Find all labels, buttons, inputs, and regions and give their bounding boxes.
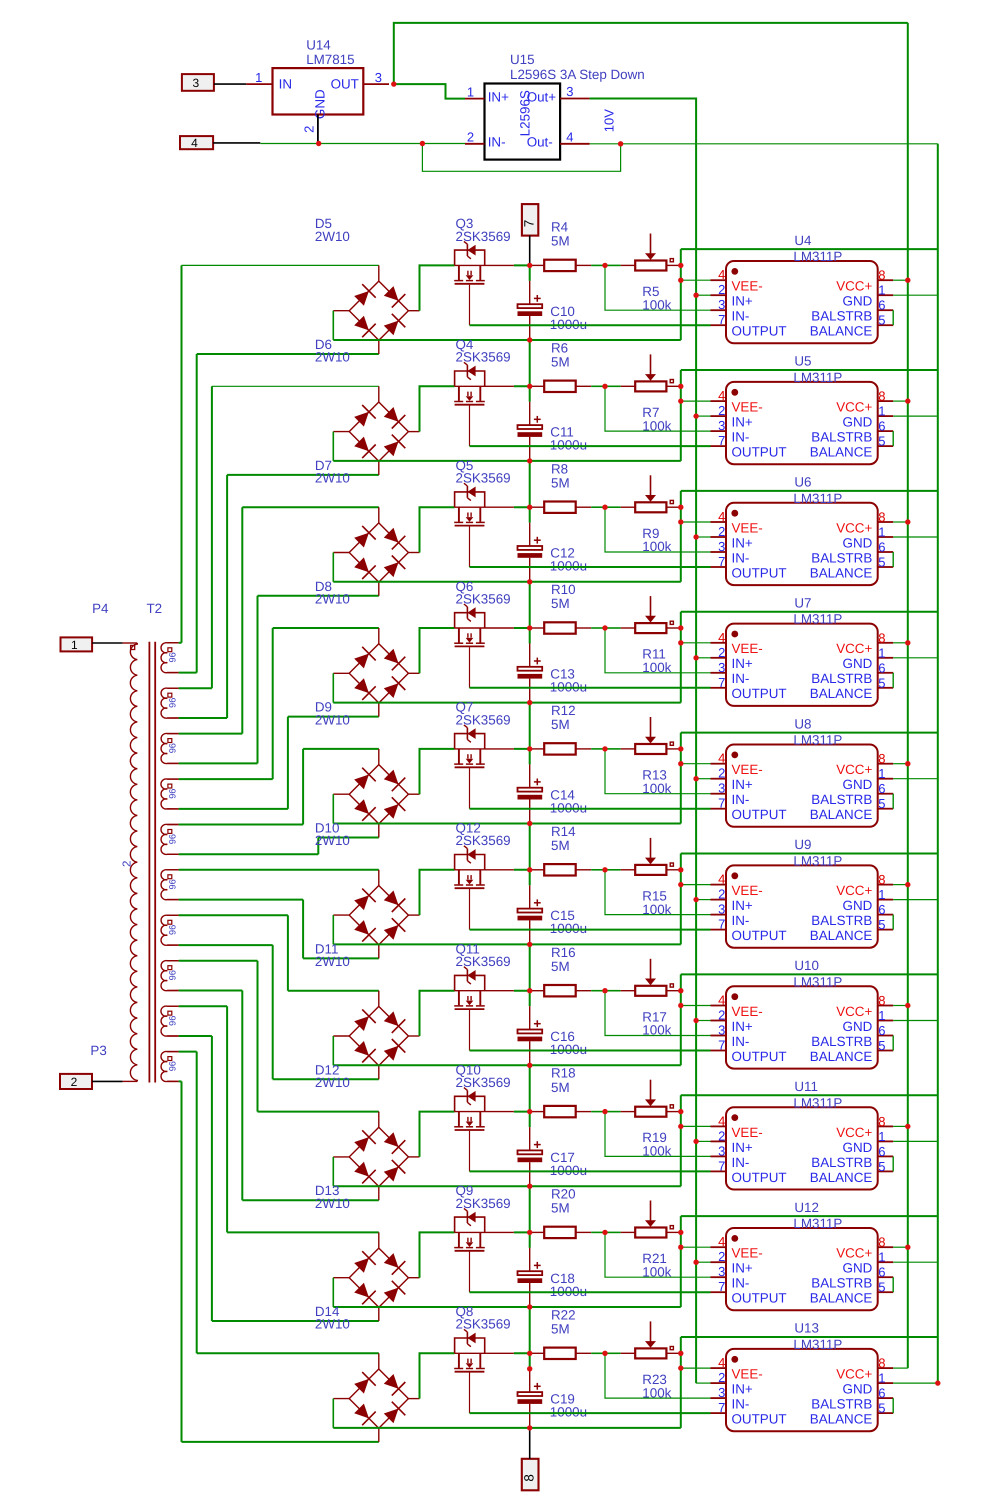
- wire ch2 VEE tie: [680, 370, 682, 461]
- svg-text:2SK3569: 2SK3569: [456, 833, 511, 848]
- U12 pin stubs: [711, 1246, 727, 1248]
- wire U5 balance strobe loop: [892, 431, 894, 446]
- comparator U4 LM311P: [711, 233, 894, 343]
- svg-text:7: 7: [718, 554, 725, 569]
- potentiometer R11 100k: [605, 596, 679, 675]
- R9 wiper arrow: [650, 475, 652, 496]
- svg-text:OUTPUT: OUTPUT: [732, 445, 787, 460]
- svg-text:IN+: IN+: [488, 90, 509, 105]
- wire ch3 negative rail: [333, 553, 681, 582]
- svg-text:1: 1: [878, 1008, 885, 1023]
- svg-text:2: 2: [718, 524, 725, 539]
- wire ch1 AC input A (T2 sec1 top to D5): [179, 265, 379, 642]
- svg-text:1: 1: [878, 404, 885, 419]
- node ch10 divider junction: [602, 1351, 607, 1356]
- node U9 VCC junction: [905, 882, 910, 887]
- wire ch6 OUTPUT to gate: [470, 929, 711, 931]
- svg-text:IN+: IN+: [732, 656, 753, 671]
- node ch6 divider junction: [602, 867, 607, 872]
- svg-text:R6: R6: [551, 340, 568, 355]
- svg-text:5: 5: [878, 675, 885, 690]
- wire ch3 VEE: [681, 521, 711, 523]
- svg-text:2W10: 2W10: [315, 591, 350, 606]
- svg-text:7: 7: [718, 1279, 725, 1294]
- R5 wiper arrow: [650, 234, 652, 255]
- svg-text:1: 1: [878, 645, 885, 660]
- potentiometer R15 100k: [605, 838, 679, 917]
- svg-text:2SK3569: 2SK3569: [456, 229, 511, 244]
- node ch7 pot right junction: [678, 988, 683, 993]
- resistor R20 5M: [544, 1187, 605, 1239]
- svg-text:OUTPUT: OUTPUT: [732, 807, 787, 822]
- svg-text:2: 2: [718, 766, 725, 781]
- svg-text:8: 8: [878, 872, 885, 887]
- svg-text:6: 6: [878, 1386, 885, 1401]
- svg-text:VCC+: VCC+: [836, 1125, 872, 1140]
- svg-text:P4: P4: [92, 601, 109, 616]
- svg-text:2: 2: [122, 861, 134, 867]
- svg-text:OUTPUT: OUTPUT: [732, 565, 787, 580]
- comparator U10 LM311P: [711, 958, 894, 1069]
- wire ch4 AC input A (T2 sec4 top to D8): [179, 628, 379, 779]
- capacitor C11 1000u: [518, 386, 588, 461]
- wire ch5 negative rail: [333, 794, 681, 823]
- T2 secondary 6 top lead stub: [167, 869, 178, 871]
- wire port4 / GND net: [213, 142, 465, 145]
- node ch10 GND bus end: [935, 1380, 940, 1385]
- node ch7 VEE junction: [678, 1003, 683, 1008]
- node ch5 rail chain junction: [527, 746, 532, 751]
- wire U15 Out+ 10V bus: [590, 99, 697, 1384]
- wire ch9 VEE: [681, 1246, 711, 1248]
- wire ch4 positive rail: [420, 628, 545, 673]
- svg-text:U13: U13: [794, 1321, 819, 1336]
- T2 secondary 2 top lead stub: [167, 687, 178, 689]
- svg-text:VCC+: VCC+: [836, 1246, 872, 1261]
- svg-text:GND: GND: [843, 294, 873, 309]
- capacitor C19 1000u: [518, 1353, 588, 1428]
- bridge rectifier D13 2W10: [315, 1183, 420, 1321]
- svg-text:GND: GND: [843, 777, 873, 792]
- svg-text:8: 8: [878, 268, 885, 283]
- node ch4 chain junction: [527, 700, 532, 705]
- svg-text:L2596S 3A Step Down: L2596S 3A Step Down: [510, 67, 645, 82]
- svg-text:U14: U14: [306, 38, 331, 53]
- wire ch4 OUTPUT to gate: [470, 687, 711, 689]
- transformer T2 secondary winding 10: [161, 1051, 179, 1081]
- C14 plus mark: [534, 781, 541, 783]
- wire ch7 VEE: [681, 1005, 711, 1007]
- svg-text:7: 7: [718, 312, 725, 327]
- wire ch8 IN+ from 10V bus: [696, 1140, 710, 1142]
- T2 secondary 10 bottom lead stub: [167, 1080, 178, 1082]
- wire chain ch9 to ch10: [529, 1307, 531, 1353]
- resistor R12 5M: [544, 703, 605, 755]
- svg-text:2: 2: [718, 1128, 725, 1143]
- svg-text:3: 3: [193, 76, 200, 90]
- svg-text:U12: U12: [794, 1200, 819, 1215]
- node ch6 VEE junction: [678, 882, 683, 887]
- svg-text:BALANCE: BALANCE: [810, 686, 873, 701]
- node ch9 rail chain junction: [527, 1230, 532, 1235]
- svg-text:3: 3: [718, 1385, 725, 1400]
- wire ch3 AC input B (T2 sec3 bottom to D7): [179, 596, 379, 764]
- svg-text:4: 4: [718, 630, 725, 645]
- wire ch9 AC input A (T2 sec9 top to D13): [179, 1006, 379, 1232]
- wire 15V bus vertical: [907, 23, 909, 1368]
- svg-text:VEE-: VEE-: [732, 520, 763, 535]
- svg-text:96: 96: [167, 743, 177, 753]
- svg-text:96: 96: [167, 925, 177, 935]
- svg-text:96: 96: [167, 1061, 177, 1071]
- svg-text:BALANCE: BALANCE: [810, 1049, 873, 1064]
- Q9 gate pin: [469, 1252, 471, 1293]
- T2 secondary 4 top lead stub: [167, 778, 178, 780]
- U5 pin stubs: [711, 400, 727, 402]
- wire U12 balance strobe loop: [892, 1277, 894, 1292]
- svg-text:IN-: IN-: [732, 792, 750, 807]
- Q11 gate pin: [469, 1010, 471, 1051]
- wire ch2 IN- sense: [605, 386, 711, 431]
- svg-text:8: 8: [522, 1474, 537, 1481]
- svg-text:BALSTRB: BALSTRB: [811, 430, 872, 445]
- wire ch7 reference to GND bus: [681, 973, 938, 975]
- transformer T2 secondary winding 8: [161, 961, 179, 991]
- node ch7 divider junction: [602, 988, 607, 993]
- svg-text:GND: GND: [843, 656, 873, 671]
- svg-text:IN-: IN-: [732, 550, 750, 565]
- svg-text:3: 3: [718, 902, 725, 917]
- svg-text:IN+: IN+: [732, 1261, 753, 1276]
- Q10 gate pin: [469, 1131, 471, 1172]
- wire ch3 OUTPUT to gate: [470, 566, 711, 568]
- D13 pin stubs: [378, 1232, 380, 1248]
- wire U9 VCC+ to 15V bus: [893, 884, 908, 886]
- svg-text:IN-: IN-: [732, 671, 750, 686]
- svg-text:R22: R22: [551, 1307, 576, 1322]
- svg-text:BALANCE: BALANCE: [810, 807, 873, 822]
- wire port7 to chain top: [529, 236, 531, 266]
- svg-text:1: 1: [878, 1129, 885, 1144]
- wire ch10 AC input A (T2 sec10 top to D14): [179, 1052, 379, 1354]
- svg-text:LM311P: LM311P: [793, 733, 842, 748]
- svg-text:4: 4: [718, 1234, 725, 1249]
- wire port1 to T2 primary: [92, 642, 137, 644]
- svg-text:4: 4: [566, 130, 573, 145]
- R23 wiper arrow: [650, 1321, 652, 1342]
- svg-text:5: 5: [878, 1159, 885, 1174]
- wire U8 balance strobe loop: [892, 794, 894, 809]
- svg-text:BALSTRB: BALSTRB: [811, 1155, 872, 1170]
- wire ch10 reference to GND bus: [681, 1336, 938, 1338]
- node ch8 rail chain junction: [527, 1109, 532, 1114]
- wire ch6 AC input A (T2 sec6 top to D10): [179, 869, 379, 871]
- R17 wiper arrow: [650, 959, 652, 980]
- Q4 gate pin: [469, 406, 471, 447]
- wire U4 VCC+ to 15V bus: [893, 279, 908, 281]
- wire ch4 negative rail: [333, 673, 681, 702]
- svg-text:GND: GND: [843, 1382, 873, 1397]
- svg-text:5: 5: [878, 1038, 885, 1053]
- potentiometer R19 100k: [605, 1080, 679, 1159]
- comparator U11 LM311P: [711, 1079, 894, 1190]
- bridge rectifier D7 2W10: [315, 458, 420, 596]
- svg-text:2SK3569: 2SK3569: [456, 350, 511, 365]
- wire ch5 VEE tie: [680, 733, 682, 824]
- svg-text:3: 3: [718, 1264, 725, 1279]
- C12 plus mark: [534, 539, 541, 541]
- svg-text:6: 6: [878, 540, 885, 555]
- R15 wiper arrow: [650, 838, 652, 859]
- D6 pin stubs: [378, 386, 380, 402]
- T2 secondary 4 bottom lead stub: [167, 808, 178, 810]
- D11 pin stubs: [378, 991, 380, 1007]
- transformer T2 secondary winding 2: [161, 688, 179, 718]
- wire U10 balance strobe loop: [892, 1036, 894, 1051]
- node ch9 pot right junction: [678, 1230, 683, 1235]
- svg-text:7: 7: [522, 220, 537, 227]
- node ch2 VEE junction: [678, 398, 683, 403]
- wire ch1 positive rail: [420, 265, 545, 310]
- node ch2 chain junction: [527, 458, 532, 463]
- node ch10 VEE junction: [678, 1365, 683, 1370]
- T2 secondary 1 bottom lead stub: [167, 672, 178, 674]
- wire ch10 OUTPUT to gate: [470, 1412, 711, 1414]
- node ch9 chain junction: [527, 1304, 532, 1309]
- node U10 VCC junction: [905, 1003, 910, 1008]
- port 7: [522, 204, 539, 236]
- bridge rectifier D11 2W10: [315, 942, 420, 1080]
- wire ch8 negative rail: [333, 1157, 681, 1186]
- svg-text:8: 8: [878, 1356, 885, 1371]
- wire ch8 VEE tie: [680, 1095, 682, 1186]
- wire ch3 IN- sense: [605, 507, 711, 552]
- bridge rectifier D10 2W10: [315, 821, 420, 959]
- node ch1 rail chain junction: [527, 263, 532, 268]
- wire U9 balance strobe loop: [892, 915, 894, 930]
- node ch2 divider junction: [602, 384, 607, 389]
- Q8 gate pin: [469, 1373, 471, 1414]
- R11 wiper arrow: [650, 596, 652, 617]
- svg-text:5M: 5M: [551, 596, 570, 611]
- svg-text:2: 2: [718, 1249, 725, 1264]
- wire ch1 IN- sense: [605, 265, 711, 310]
- T2 secondary 3 top lead stub: [167, 733, 178, 735]
- svg-text:7: 7: [718, 796, 725, 811]
- U9 pin stubs: [711, 884, 727, 886]
- C13 plus mark: [534, 660, 541, 662]
- bridge rectifier D8 2W10: [315, 579, 420, 717]
- node ch3 VEE junction: [678, 519, 683, 524]
- svg-text:P3: P3: [90, 1043, 106, 1058]
- Q5 gate pin: [469, 526, 471, 567]
- T2 secondary 7 bottom lead stub: [167, 944, 178, 946]
- wire U8 GND to bus: [893, 778, 938, 780]
- svg-text:BALSTRB: BALSTRB: [811, 1034, 872, 1049]
- comparator U9 LM311P: [711, 837, 894, 948]
- svg-text:VEE-: VEE-: [732, 762, 763, 777]
- svg-text:5: 5: [878, 1280, 885, 1295]
- wire U8 VCC+ to 15V bus: [893, 763, 908, 765]
- svg-text:GND: GND: [843, 1140, 873, 1155]
- bridge rectifier D14 2W10: [315, 1304, 420, 1442]
- D12 pin stubs: [378, 1112, 380, 1128]
- capacitor C18 1000u: [518, 1232, 588, 1307]
- U10 pin stubs: [711, 1005, 727, 1007]
- svg-text:IN+: IN+: [732, 294, 753, 309]
- svg-text:1: 1: [878, 525, 885, 540]
- bridge rectifier D6 2W10: [315, 337, 420, 475]
- svg-text:2SK3569: 2SK3569: [456, 1317, 511, 1332]
- svg-text:OUTPUT: OUTPUT: [732, 686, 787, 701]
- svg-text:R8: R8: [551, 461, 568, 476]
- svg-text:2SK3569: 2SK3569: [456, 591, 511, 606]
- node GND loop left: [420, 141, 425, 146]
- transformer T2 secondary winding 4: [161, 779, 179, 809]
- node ch10 cap top extra junction: [527, 1366, 532, 1371]
- wire ch8 VEE: [681, 1125, 711, 1127]
- wire chain ch3 to ch4: [529, 582, 531, 628]
- svg-text:2SK3569: 2SK3569: [456, 1196, 511, 1211]
- svg-text:IN+: IN+: [732, 1140, 753, 1155]
- wire GND loop under U15: [422, 144, 620, 172]
- svg-text:VCC+: VCC+: [836, 400, 872, 415]
- wire U5 VCC+ to 15V bus: [893, 400, 908, 402]
- C15 plus mark: [534, 902, 541, 904]
- svg-text:96: 96: [167, 970, 177, 980]
- wire ch4 IN- sense: [605, 628, 711, 673]
- svg-text:5M: 5M: [551, 1322, 570, 1337]
- svg-text:2: 2: [718, 1370, 725, 1385]
- svg-text:R4: R4: [551, 220, 569, 235]
- wire ch10 VEE: [681, 1367, 711, 1369]
- svg-text:2SK3569: 2SK3569: [456, 471, 511, 486]
- wire ch8 OUTPUT to gate: [470, 1170, 711, 1172]
- svg-text:4: 4: [718, 1113, 725, 1128]
- svg-text:8: 8: [878, 510, 885, 525]
- wire chain ch6 to ch7: [529, 944, 531, 990]
- wire ch1 AC input B (T2 sec1 bottom to D5): [179, 354, 379, 673]
- svg-text:2: 2: [718, 645, 725, 660]
- wire ch9 AC input B (T2 sec9 bottom to D13): [179, 1036, 379, 1321]
- svg-text:4: 4: [718, 993, 725, 1008]
- svg-text:VCC+: VCC+: [836, 520, 872, 535]
- Q7 gate pin: [469, 768, 471, 809]
- node ch4 pot right junction: [678, 625, 683, 630]
- wire ch9 IN+ from 10V bus: [696, 1261, 710, 1263]
- svg-text:96: 96: [167, 652, 177, 662]
- svg-text:8: 8: [878, 389, 885, 404]
- svg-text:BALANCE: BALANCE: [810, 1412, 873, 1427]
- wire ch5 VEE: [681, 763, 711, 765]
- svg-text:96: 96: [167, 834, 177, 844]
- wire chain ch1 to ch2: [529, 340, 531, 386]
- capacitor C14 1000u: [518, 749, 588, 824]
- wire chain ch7 to ch8: [529, 1065, 531, 1111]
- node ch4 divider junction: [602, 625, 607, 630]
- wire U7 VCC+ to 15V bus: [893, 642, 908, 644]
- wire U11 balance strobe loop: [892, 1156, 894, 1171]
- MOSFET Q9 2SK3569: [454, 1183, 514, 1292]
- port 2: [60, 1074, 92, 1089]
- wire chain ch5 to ch6: [529, 824, 531, 870]
- node ch1 VEE junction: [678, 278, 683, 283]
- svg-text:7: 7: [718, 433, 725, 448]
- svg-text:5M: 5M: [551, 1201, 570, 1216]
- svg-text:IN-: IN-: [732, 913, 750, 928]
- svg-text:T2: T2: [147, 601, 163, 616]
- T2 secondary 10 top lead stub: [167, 1051, 178, 1053]
- node U14 OUT junction: [391, 81, 396, 86]
- wire ch8 AC input A (T2 sec8 top to D12): [179, 961, 379, 1112]
- svg-text:5: 5: [878, 434, 885, 449]
- node ch9 VEE junction: [678, 1245, 683, 1250]
- U6 pin stubs: [711, 521, 727, 523]
- node ch2 IN+ junction: [693, 413, 698, 418]
- wire 15V rail to right top: [394, 23, 908, 84]
- wire ch5 IN- sense: [605, 749, 711, 794]
- node ch8 pot right junction: [678, 1109, 683, 1114]
- svg-text:BALSTRB: BALSTRB: [811, 913, 872, 928]
- svg-text:2: 2: [467, 130, 474, 145]
- port 4: [180, 136, 213, 150]
- svg-text:2SK3569: 2SK3569: [456, 1075, 511, 1090]
- wire GND bus vertical: [937, 144, 939, 1383]
- svg-text:R20: R20: [551, 1187, 576, 1202]
- node U12 VCC junction: [905, 1245, 910, 1250]
- wire ch5 AC input B (T2 sec5 bottom to D9): [179, 838, 379, 855]
- wire ch5 OUTPUT to gate: [470, 808, 711, 810]
- capacitor C10 1000u: [518, 265, 588, 340]
- buck converter U15 L2596S: [465, 52, 645, 159]
- D7 pin stubs: [378, 507, 380, 523]
- R21 wiper arrow: [650, 1201, 652, 1222]
- svg-text:1: 1: [467, 85, 474, 100]
- svg-text:VCC+: VCC+: [836, 279, 872, 294]
- wire ch2 IN+ from 10V bus: [696, 415, 710, 417]
- resistor R16 5M: [544, 945, 605, 997]
- node U6 VCC junction: [905, 519, 910, 524]
- MOSFET Q8 2SK3569: [454, 1304, 514, 1413]
- node ch5 VEE junction: [678, 761, 683, 766]
- svg-text:OUT: OUT: [331, 77, 359, 92]
- node ch3 divider junction: [602, 505, 607, 510]
- U14 pin 3 stub: [363, 83, 389, 85]
- wire U6 balance strobe loop: [892, 552, 894, 567]
- svg-text:7: 7: [718, 675, 725, 690]
- node ch5 pot right junction: [678, 746, 683, 751]
- R19 wiper arrow: [650, 1080, 652, 1101]
- svg-text:5M: 5M: [551, 234, 570, 249]
- wire ch6 negative rail: [333, 915, 681, 944]
- svg-text:BALANCE: BALANCE: [810, 565, 873, 580]
- comparator U6 LM311P: [711, 475, 894, 585]
- svg-text:OUTPUT: OUTPUT: [732, 324, 787, 339]
- svg-text:96: 96: [167, 1016, 177, 1026]
- D8 pin stubs: [378, 628, 380, 644]
- node U5 VCC junction: [905, 398, 910, 403]
- C10 plus mark: [534, 297, 541, 299]
- potentiometer R21 100k: [605, 1201, 679, 1280]
- node ch8 VEE junction: [678, 1124, 683, 1129]
- svg-text:6: 6: [878, 298, 885, 313]
- wire U14 OUT to U15 IN+: [394, 84, 465, 99]
- node ch8 divider junction: [602, 1109, 607, 1114]
- wire U12 GND to bus: [893, 1261, 938, 1263]
- Q12 gate pin: [469, 889, 471, 930]
- svg-text:BALSTRB: BALSTRB: [811, 550, 872, 565]
- node ch2 pot right junction: [678, 384, 683, 389]
